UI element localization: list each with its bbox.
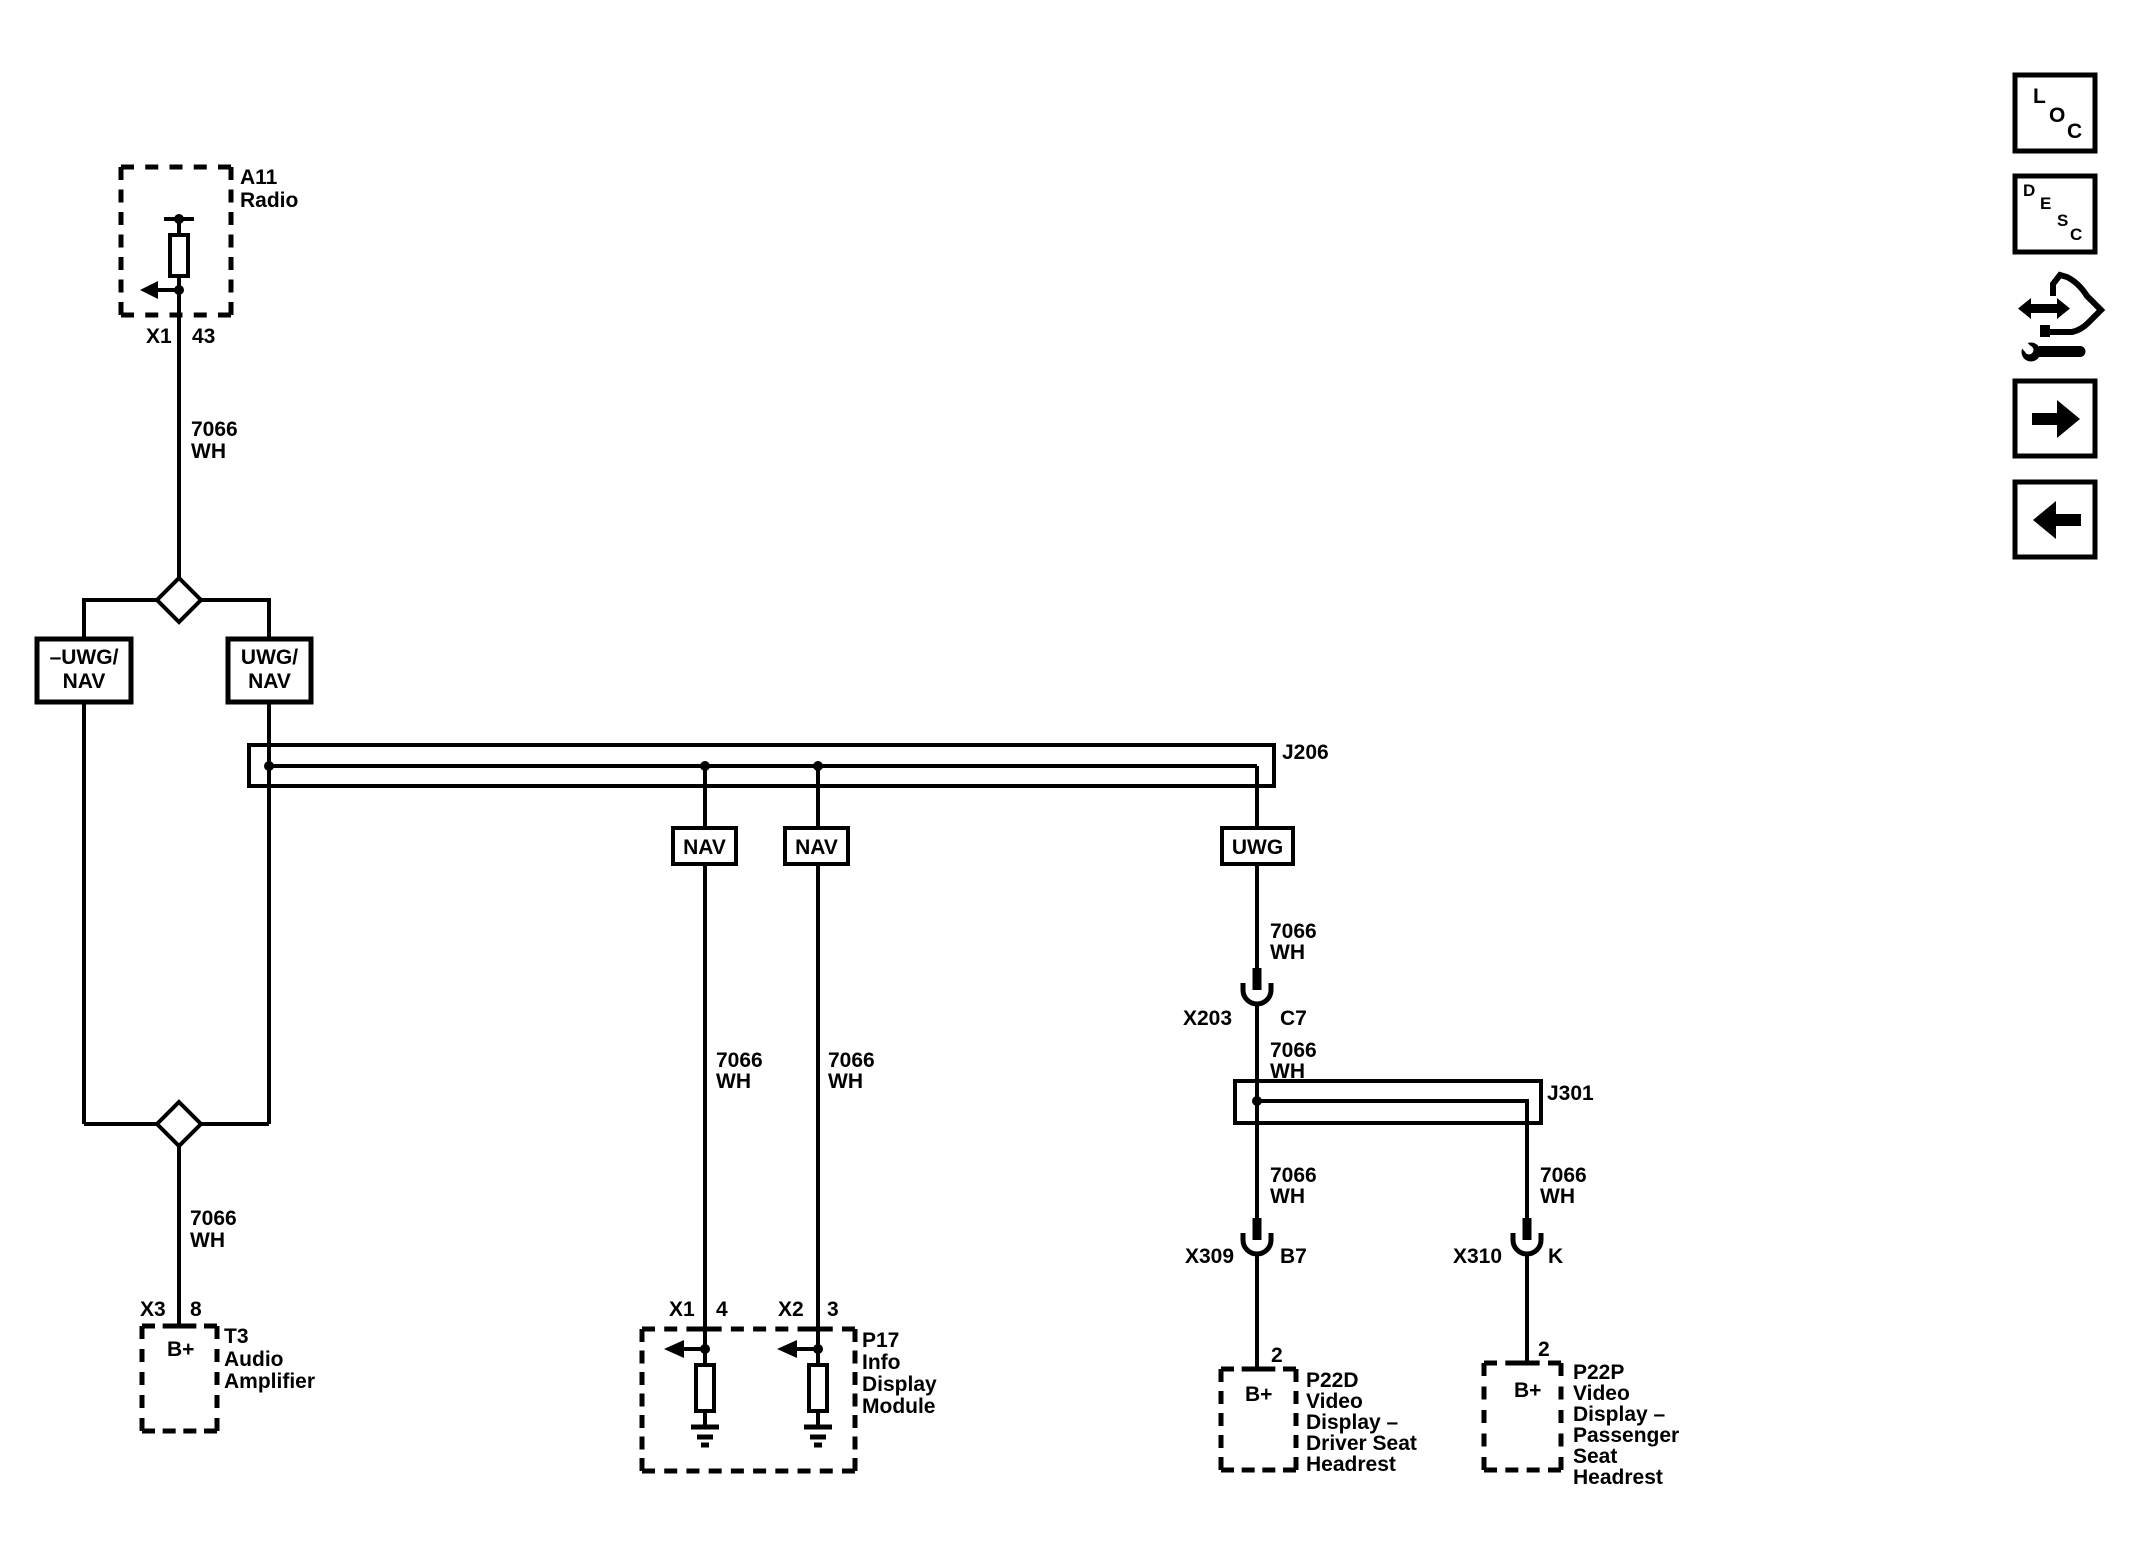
wire X309 to P22D <box>1255 1254 1259 1369</box>
svg-text:X1: X1 <box>146 325 172 348</box>
wire A11 pin 43 down to splice <box>177 290 181 580</box>
svg-text:7066: 7066 <box>1540 1164 1587 1187</box>
icon DESC box <box>2015 176 2095 252</box>
svg-text:7066: 7066 <box>1270 920 1317 943</box>
component P17 dashed box <box>642 1329 855 1471</box>
wire NAV2 down to P17 <box>816 864 820 1349</box>
pin label X3 8 <box>140 1298 202 1321</box>
signal arrow P17 left <box>684 1347 705 1351</box>
svg-text:Audio: Audio <box>224 1348 283 1371</box>
connector X310 pin <box>1523 1218 1532 1240</box>
svg-text:Driver Seat: Driver Seat <box>1306 1432 1417 1455</box>
svg-text:7066: 7066 <box>191 418 238 441</box>
component A11 Radio dashed box <box>121 167 231 315</box>
svg-text:43: 43 <box>192 325 215 348</box>
svg-text:X309: X309 <box>1185 1245 1234 1268</box>
wire label 7066 WH below X203 <box>1270 1039 1317 1083</box>
svg-text:X2: X2 <box>778 1298 804 1321</box>
junction dot J301 <box>1252 1096 1262 1106</box>
svg-text:S: S <box>2057 211 2068 230</box>
label X203 C7 <box>1183 1007 1307 1030</box>
splice diamond top <box>157 578 201 622</box>
resistor P17 right <box>816 1349 820 1365</box>
wire UWG down <box>1255 864 1259 970</box>
svg-text:Display –: Display – <box>1306 1411 1399 1434</box>
svg-text:UWG: UWG <box>1232 836 1283 859</box>
wire splice branch bottom <box>84 1122 269 1126</box>
signal arrow inside A11 <box>158 288 179 292</box>
svg-text:E: E <box>2040 194 2051 213</box>
svg-text:7066: 7066 <box>716 1049 763 1072</box>
svg-text:Headrest: Headrest <box>1573 1466 1663 1489</box>
pin label 2 left <box>1271 1344 1283 1367</box>
svg-text:NAV: NAV <box>683 836 726 859</box>
component T3 dashed box <box>142 1326 217 1431</box>
svg-text:X203: X203 <box>1183 1007 1232 1030</box>
svg-text:NAV: NAV <box>248 670 291 693</box>
wire J301 right leg <box>1525 1123 1529 1218</box>
label X310 K <box>1453 1245 1563 1268</box>
svg-text:7066: 7066 <box>828 1049 875 1072</box>
component P22P dashed box <box>1484 1363 1561 1470</box>
svg-text:J206: J206 <box>1282 741 1329 764</box>
svg-text:NAV: NAV <box>63 670 106 693</box>
pin labels X2 3 <box>778 1298 839 1321</box>
wire X310 to P22P <box>1525 1254 1529 1363</box>
junction dot P17 right <box>813 1344 823 1354</box>
wire label 7066 WH <box>191 418 238 463</box>
label P22D block <box>1306 1369 1417 1476</box>
svg-text:B+: B+ <box>1514 1379 1541 1402</box>
svg-text:–UWG/: –UWG/ <box>50 646 119 669</box>
svg-text:WH: WH <box>1270 941 1305 964</box>
svg-text:Radio: Radio <box>240 189 298 212</box>
resistor P17 left <box>703 1349 707 1365</box>
wire tap3 UWG <box>1255 766 1259 828</box>
wire left branch down <box>82 702 86 1124</box>
label B+ P22D <box>1245 1383 1272 1406</box>
svg-text:8: 8 <box>190 1298 202 1321</box>
svg-text:WH: WH <box>1270 1185 1305 1208</box>
svg-text:C: C <box>2070 225 2082 244</box>
label T3 block <box>224 1325 315 1393</box>
connector X203 socket arc <box>1243 983 1271 1004</box>
signal arrow P17 right <box>797 1347 818 1351</box>
svg-text:P22P: P22P <box>1573 1361 1624 1384</box>
pin label 2 right <box>1538 1338 1550 1361</box>
wire label 7066 WH bottom left <box>190 1207 237 1252</box>
splice pack J301 inner bus <box>1257 1101 1527 1123</box>
antenna node dot <box>174 214 184 224</box>
splice pack J206 outline <box>249 745 1274 786</box>
antenna terminal bar inside A11 <box>164 217 194 221</box>
svg-text:L: L <box>2033 85 2046 108</box>
wire X203 to J301 <box>1255 1004 1259 1081</box>
label P22P block <box>1573 1361 1679 1489</box>
wire label 7066 WH nav2 <box>828 1049 875 1093</box>
svg-text:B7: B7 <box>1280 1245 1307 1268</box>
svg-text:C: C <box>2067 120 2082 143</box>
svg-text:T3: T3 <box>224 1325 249 1348</box>
label A11 Radio <box>240 166 298 212</box>
svg-text:O: O <box>2049 104 2065 127</box>
connector X310 socket arc <box>1513 1233 1541 1254</box>
wire splice to T3 <box>177 1146 181 1326</box>
svg-text:K: K <box>1548 1245 1563 1268</box>
wire label 7066 WH nav1 <box>716 1049 763 1093</box>
svg-text:Module: Module <box>862 1395 936 1418</box>
svg-text:2: 2 <box>1538 1338 1550 1361</box>
component P22D dashed box <box>1221 1369 1296 1470</box>
option box UWG/NAV <box>228 639 311 702</box>
wire label 7066 WH right leg <box>1540 1164 1587 1208</box>
ground P17 right <box>804 1427 832 1445</box>
option box NAV 1 <box>673 828 736 864</box>
option box NAV 2 <box>785 828 848 864</box>
svg-text:Video: Video <box>1306 1390 1363 1413</box>
label X309 B7 <box>1185 1245 1307 1268</box>
wire label 7066 WH left leg <box>1270 1164 1317 1208</box>
wire antenna stem <box>177 219 181 235</box>
wire tap2 <box>816 766 820 828</box>
splice diamond bottom <box>157 1102 201 1146</box>
pin label X1 43 <box>146 325 215 348</box>
ground P17 left <box>691 1427 719 1445</box>
svg-text:WH: WH <box>828 1070 863 1093</box>
wire right branch down <box>267 702 271 1124</box>
label J301 <box>1547 1082 1594 1105</box>
label P17 block <box>862 1329 937 1418</box>
svg-text:2: 2 <box>1271 1344 1283 1367</box>
svg-text:WH: WH <box>191 440 226 463</box>
icon next arrow box <box>2015 381 2095 456</box>
svg-text:B+: B+ <box>167 1338 194 1361</box>
svg-text:D: D <box>2023 181 2035 200</box>
svg-text:Passenger: Passenger <box>1573 1424 1679 1447</box>
label B+ P22P <box>1514 1379 1541 1402</box>
svg-text:P17: P17 <box>862 1329 899 1352</box>
splice pack J301 outline <box>1235 1081 1541 1123</box>
junction dot J206 left <box>264 761 274 771</box>
svg-text:WH: WH <box>190 1229 225 1252</box>
icon back arrow box <box>2015 482 2095 557</box>
wire J301 left leg <box>1255 1081 1259 1218</box>
svg-text:Seat: Seat <box>1573 1445 1617 1468</box>
connector X203 pin <box>1253 968 1262 990</box>
svg-text:Display –: Display – <box>1573 1403 1666 1426</box>
option box UWG <box>1222 828 1293 864</box>
wire NAV1 down to P17 <box>703 864 707 1349</box>
svg-text:C7: C7 <box>1280 1007 1307 1030</box>
wire tap1 <box>703 766 707 828</box>
icon service wrench <box>2022 343 2086 362</box>
svg-text:3: 3 <box>827 1298 839 1321</box>
svg-text:7066: 7066 <box>1270 1039 1317 1062</box>
svg-text:4: 4 <box>716 1298 728 1321</box>
wire splice branch top <box>84 600 269 639</box>
svg-text:UWG/: UWG/ <box>241 646 298 669</box>
svg-text:Amplifier: Amplifier <box>224 1370 315 1393</box>
svg-text:X310: X310 <box>1453 1245 1502 1268</box>
svg-text:Headrest: Headrest <box>1306 1453 1396 1476</box>
svg-text:A11: A11 <box>240 166 278 189</box>
option box -UWG/NAV <box>37 639 131 702</box>
splice pack J206 inner bus <box>269 764 1257 768</box>
svg-text:WH: WH <box>716 1070 751 1093</box>
wire resistor lead <box>177 276 181 290</box>
junction dot J206 tap1 <box>700 761 710 771</box>
svg-text:WH: WH <box>1540 1185 1575 1208</box>
svg-text:P22D: P22D <box>1306 1369 1359 1392</box>
label B+ T3 <box>167 1338 194 1361</box>
connector X309 socket arc <box>1243 1233 1271 1254</box>
label J206 <box>1282 741 1329 764</box>
svg-text:7066: 7066 <box>1270 1164 1317 1187</box>
svg-text:B+: B+ <box>1245 1383 1272 1406</box>
resistor element inside A11 <box>170 235 188 276</box>
svg-text:X1: X1 <box>669 1298 695 1321</box>
junction dot A11 <box>174 285 184 295</box>
junction dot J206 tap2 <box>813 761 823 771</box>
pin labels X1 4 <box>669 1298 728 1321</box>
svg-text:Video: Video <box>1573 1382 1630 1405</box>
connector X309 pin <box>1253 1218 1262 1240</box>
svg-text:J301: J301 <box>1547 1082 1594 1105</box>
svg-text:Info: Info <box>862 1351 900 1374</box>
svg-text:7066: 7066 <box>190 1207 237 1230</box>
wire label 7066 WH uwg <box>1270 920 1317 964</box>
svg-text:NAV: NAV <box>795 836 838 859</box>
junction dot P17 left <box>700 1344 710 1354</box>
svg-text:Display: Display <box>862 1373 937 1396</box>
icon service double arrow <box>2018 298 2070 319</box>
icon LOC box <box>2015 75 2095 151</box>
svg-text:X3: X3 <box>140 1298 166 1321</box>
icon service part outline <box>2042 275 2101 332</box>
